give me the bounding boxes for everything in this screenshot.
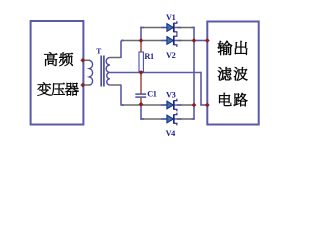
svg-text:V1: V1	[166, 13, 176, 22]
svg-text:V4: V4	[166, 129, 176, 138]
svg-text:C1: C1	[147, 89, 157, 98]
svg-text:R1: R1	[144, 52, 154, 61]
svg-text:V2: V2	[166, 51, 176, 60]
svg-text:T: T	[96, 47, 101, 56]
svg-text:V3: V3	[166, 91, 176, 100]
